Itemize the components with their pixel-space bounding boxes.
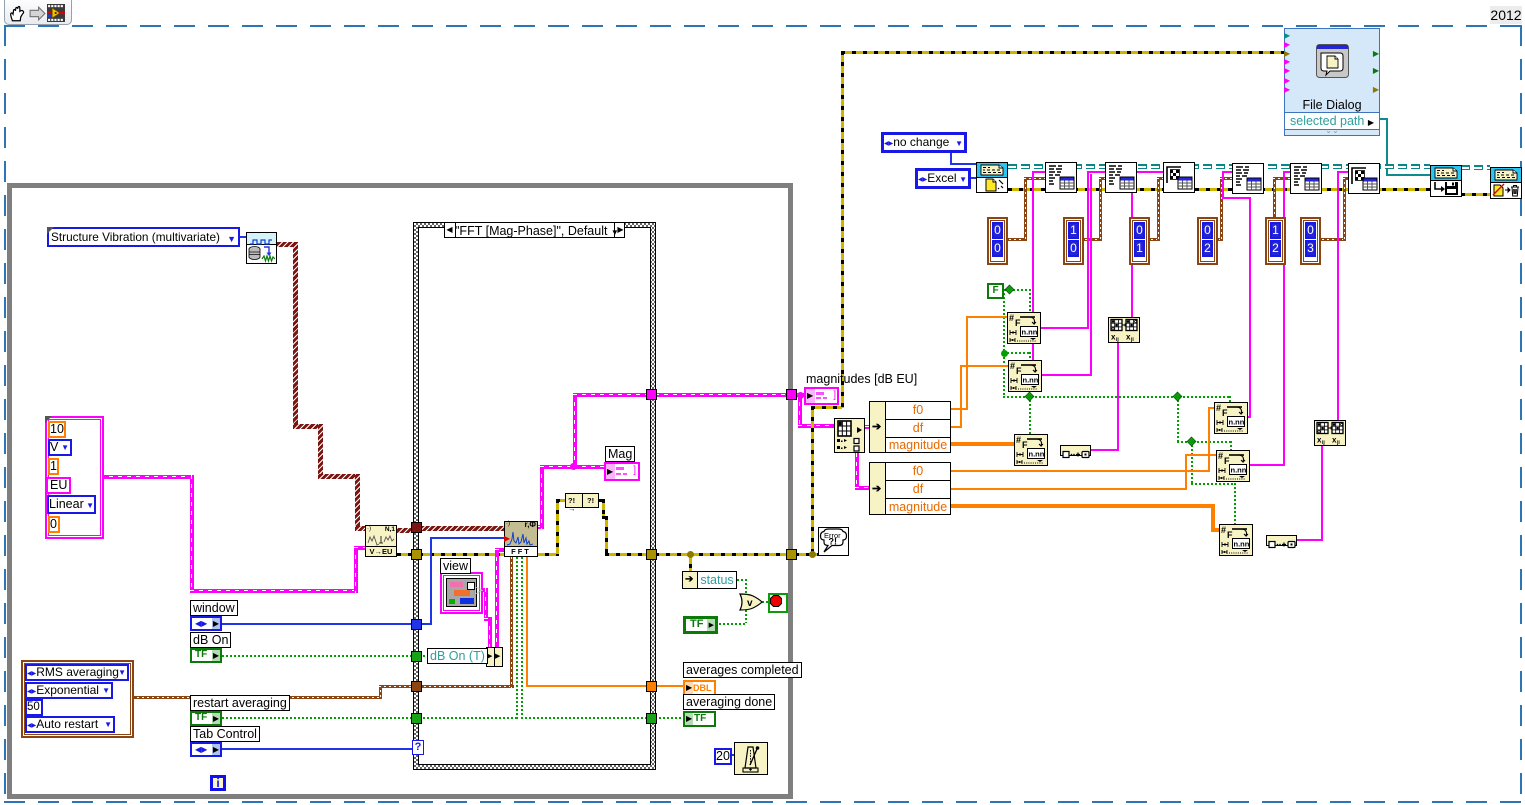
string constant EU — [46, 477, 71, 494]
terminal restart averaging TF — [190, 711, 222, 726]
cluster constant 1,0 — [1063, 217, 1084, 265]
VI number to fractional string 6 — [1219, 524, 1253, 556]
tunnel brown averaging — [411, 681, 422, 692]
tunnel while error — [786, 549, 797, 560]
wire orange averages-completed FFT down to right tunnel — [526, 557, 528, 687]
cluster constant 0,0 — [987, 217, 1008, 265]
wire pink VI2 input down to F2 — [1032, 171, 1034, 360]
svg-text:#: # — [1009, 313, 1014, 323]
svg-text:n.nn: n.nn — [1234, 540, 1250, 549]
VI number to fractional string 3 — [1014, 434, 1048, 466]
ring constant Excel — [915, 168, 971, 189]
VI transpose 2D array 1 — [1108, 317, 1140, 343]
toolbar arrow icon — [29, 6, 46, 21]
cluster constant 0,3 — [1300, 217, 1321, 265]
wire orange magnitude-1 to F3 — [951, 442, 1014, 446]
terminal window ring — [190, 616, 222, 631]
wire teal refnum chain — [1008, 164, 1430, 169]
svg-text:n.nn: n.nn — [1029, 450, 1045, 459]
wire dynamic data inside case to FFT — [419, 526, 504, 531]
terminal stop button — [768, 593, 788, 613]
node unbundle status — [682, 571, 698, 589]
iteration terminal i — [210, 775, 226, 791]
junction green diamond 1 — [1006, 286, 1013, 293]
case structure border — [413, 222, 656, 770]
wire orange f0-2 to F4 — [951, 470, 1210, 472]
label dB On — [190, 632, 231, 648]
VI Append Grid 1 — [1163, 162, 1195, 193]
wire pink concat2 to transpose2 — [1297, 539, 1323, 541]
svg-text:n.nn: n.nn — [1231, 466, 1247, 475]
svg-text:ji: ji — [1336, 440, 1340, 445]
VI Append Table 4 — [1290, 163, 1322, 194]
svg-text:n.nn: n.nn — [1023, 376, 1039, 385]
junction pink — [797, 392, 804, 399]
wire error FFT to right tunnel with converter detour — [534, 553, 559, 556]
ring constant Linear — [47, 495, 96, 514]
VI number to fractional string 5 — [1216, 450, 1250, 482]
wire pink concat1 to transpose1 — [1091, 449, 1119, 451]
label window — [190, 600, 238, 616]
wire blue 20 to wait — [730, 754, 736, 756]
tunnel error left — [411, 549, 422, 560]
wire green TF to OR — [715, 623, 747, 625]
node build array 1 — [1060, 445, 1091, 456]
wire green restart averaging to case — [222, 717, 414, 719]
wire error inside case from left tunnel to FFT — [419, 553, 504, 556]
outer dashed frame bottom — [4, 801, 1522, 803]
node unbundle by name 1 — [869, 401, 886, 453]
numeric constant 0 — [48, 516, 60, 533]
toolbar hand icon — [8, 3, 28, 23]
svg-text:ji: ji — [1130, 337, 1134, 342]
node build array 2 — [1266, 535, 1297, 546]
ring Exponential — [25, 682, 113, 699]
express VI acquire data icon — [246, 232, 277, 264]
node error code converter — [565, 493, 583, 508]
toolbar LabVIEW film icon — [47, 4, 65, 22]
wire blue Excel to New Report — [968, 177, 976, 179]
tunnel green restart — [411, 713, 422, 724]
VI Append Grid 2 — [1348, 163, 1380, 194]
VI FFT Spectrum — [504, 521, 538, 557]
tunnel while pink — [786, 389, 797, 400]
wire brown averaging cluster to case — [132, 696, 382, 699]
indicator Mag — [604, 462, 640, 481]
wire error outside while up and right — [795, 553, 819, 556]
numeric constant 1 — [48, 458, 59, 475]
label restart averaging — [190, 695, 290, 711]
VI New Report — [976, 162, 1008, 193]
constant TF true — [683, 616, 718, 634]
label Mag — [605, 446, 635, 462]
VI Save Report — [1430, 165, 1462, 197]
enum constant Structure Vibration — [47, 227, 240, 247]
junction error — [687, 551, 694, 558]
wire error down to status unbundle — [689, 553, 692, 571]
svg-text:?!: ?! — [829, 537, 838, 547]
wire pink outside while to magnitudes indicator — [795, 393, 806, 397]
tunnel error right — [646, 549, 657, 560]
svg-text:n.nn: n.nn — [1229, 418, 1245, 427]
cluster constant view — [440, 572, 483, 614]
numeric constant 10 — [48, 421, 66, 438]
VI Dispose Report — [1490, 167, 1522, 199]
wire blue window inside case — [419, 623, 432, 625]
label Tab Control — [190, 726, 260, 742]
express VI File Dialog — [1284, 28, 1380, 136]
cluster constant 0,2 — [1197, 217, 1218, 265]
wire orange df-2 to F5 — [951, 488, 1187, 490]
wire blue no change to New Report — [950, 150, 952, 165]
node unbundle by name 2 — [869, 462, 886, 515]
VI wait ms metronome — [734, 742, 768, 775]
VI number to fractional string 4 — [1214, 402, 1248, 434]
wire brown cluster4 to VI5 — [1214, 238, 1223, 241]
gate OR — [739, 593, 763, 611]
wire pink case to while border — [655, 393, 789, 397]
svg-text:n.nn: n.nn — [1022, 328, 1038, 337]
wire brown cluster3 to VI4 — [1146, 238, 1160, 241]
indicator magnitudes — [804, 387, 839, 405]
wire green dB On to case — [222, 655, 414, 657]
wire blue enum to acquire icon — [238, 236, 247, 238]
wire green restart inside case up to FFT — [419, 717, 518, 719]
toolbar chip — [4, 0, 72, 25]
wire pink convert to unbundle1 — [865, 425, 871, 429]
cluster constant 1,2 — [1265, 217, 1286, 265]
wire teal path from selected path — [1380, 118, 1388, 120]
wire blue window to case — [222, 623, 414, 625]
wire error chain — [1008, 188, 1430, 191]
indicator TF done — [683, 711, 716, 727]
tunnel orange averages right — [646, 681, 657, 692]
VI transpose 2D array 2 — [1314, 420, 1346, 446]
ring RMS averaging — [25, 664, 129, 681]
node convert dynamic data — [834, 418, 865, 453]
wire pink transpose2 out up to VI7 — [1337, 171, 1339, 420]
wire pink convert down to unbundle2 — [855, 453, 859, 489]
svg-text:v: v — [747, 598, 753, 609]
indicator DBL — [683, 680, 716, 696]
wire blue Tab Control to case selector — [222, 748, 412, 750]
case selector label — [444, 222, 625, 238]
label view — [440, 558, 471, 574]
constant 20 — [714, 748, 732, 765]
wire error case to while border — [655, 553, 789, 556]
wire brown averaging inside case up to FFT — [419, 685, 514, 688]
VI Append Table 3 — [1232, 163, 1264, 194]
wire green dB On inside case — [419, 655, 429, 657]
wire dynamic-data Scale VI to case tunnel — [397, 528, 415, 533]
svg-text:#: # — [1016, 435, 1021, 445]
node dB On (T) — [427, 648, 488, 664]
tunnel green dB On — [411, 651, 422, 662]
wire pink FFT magnitude output — [538, 525, 544, 529]
numeric constant 50 — [25, 699, 43, 716]
averaging parameters cluster — [21, 660, 134, 738]
VI number to fractional string 2 — [1008, 360, 1042, 392]
wire orange df-1 to F2 — [951, 426, 962, 428]
label magnitudes — [806, 372, 917, 386]
wire green OR to stop — [762, 601, 769, 603]
junction green diamond 3 — [1174, 393, 1181, 400]
junction green diamond 2 — [1026, 393, 1033, 400]
svg-text:#: # — [1221, 525, 1226, 535]
VI simple error handler — [818, 527, 849, 556]
svg-text:ij: ij — [1116, 337, 1119, 342]
ring constant V — [48, 439, 72, 456]
wire pink cluster from scaling cluster — [100, 475, 194, 479]
wire brown cluster2 to VI3 — [1080, 238, 1102, 241]
wire pink VI5 input down to F4 — [1222, 171, 1224, 199]
wire green to TF done indicator — [655, 717, 685, 719]
junction green diamond 4 — [1188, 438, 1195, 445]
wire pink F5 out up to VI6 — [1249, 464, 1285, 466]
wire orange magnitude-2 to F6 — [951, 504, 1215, 508]
wire pink view cluster to bundle node — [478, 588, 488, 592]
outer dashed frame right — [1520, 25, 1522, 803]
label averaging done — [683, 694, 775, 710]
wire error Scale VI to case tunnel — [397, 553, 415, 556]
terminal dB On TF — [190, 648, 222, 663]
wire pink FFT view input — [495, 548, 499, 649]
tunnel dynamic left — [411, 522, 422, 533]
svg-text:#: # — [1218, 451, 1223, 461]
outer dashed frame top — [4, 25, 1522, 27]
terminal Tab Control ring — [190, 742, 222, 757]
VI number to fractional string 1 — [1007, 312, 1041, 344]
outer dashed frame left — [4, 25, 6, 803]
wire orange f0-1 to F1 — [951, 408, 968, 410]
ring Auto restart — [25, 716, 115, 733]
cluster constant 0,1 — [1129, 217, 1150, 265]
label averages completed — [683, 662, 802, 678]
wire green status to OR — [737, 579, 747, 581]
tunnel pink magnitude right — [646, 389, 657, 400]
svg-text:#: # — [1010, 361, 1015, 371]
svg-text:ij: ij — [1322, 440, 1325, 445]
wire brown cluster1 to VI2 — [1004, 238, 1027, 241]
wire dynamic-data from acquire to Scale VI — [276, 242, 298, 247]
junction pink — [570, 463, 577, 470]
constant F false — [987, 283, 1004, 299]
case selector terminal — [412, 740, 424, 755]
wire orange to DBL indicator — [655, 685, 685, 687]
scaling parameters cluster — [45, 416, 104, 539]
VI Append Table 2 — [1105, 162, 1137, 193]
VI Append Table 1 — [1045, 162, 1077, 193]
wire pink F1 out up to VI3 — [1041, 327, 1089, 329]
wire pink F2 out up — [1042, 374, 1092, 376]
VI Scale Voltage to EU — [365, 525, 397, 557]
while loop border — [7, 183, 793, 799]
wire brown cluster5 to VI6 — [1273, 177, 1276, 217]
wire green averaging-done FFT down to right tunnel — [521, 557, 523, 719]
2012 version label — [1490, 6, 1522, 24]
tunnel green done right — [646, 713, 657, 724]
ring constant no change — [881, 132, 967, 153]
junction green circle — [1001, 350, 1008, 357]
wire brown cluster6 to VI7 — [1317, 238, 1346, 241]
svg-text:#: # — [1216, 403, 1221, 413]
tunnel blue window — [411, 619, 422, 630]
wire green F net — [1001, 289, 1030, 291]
wire pink transpose1 out up to VI4 — [1131, 171, 1133, 317]
